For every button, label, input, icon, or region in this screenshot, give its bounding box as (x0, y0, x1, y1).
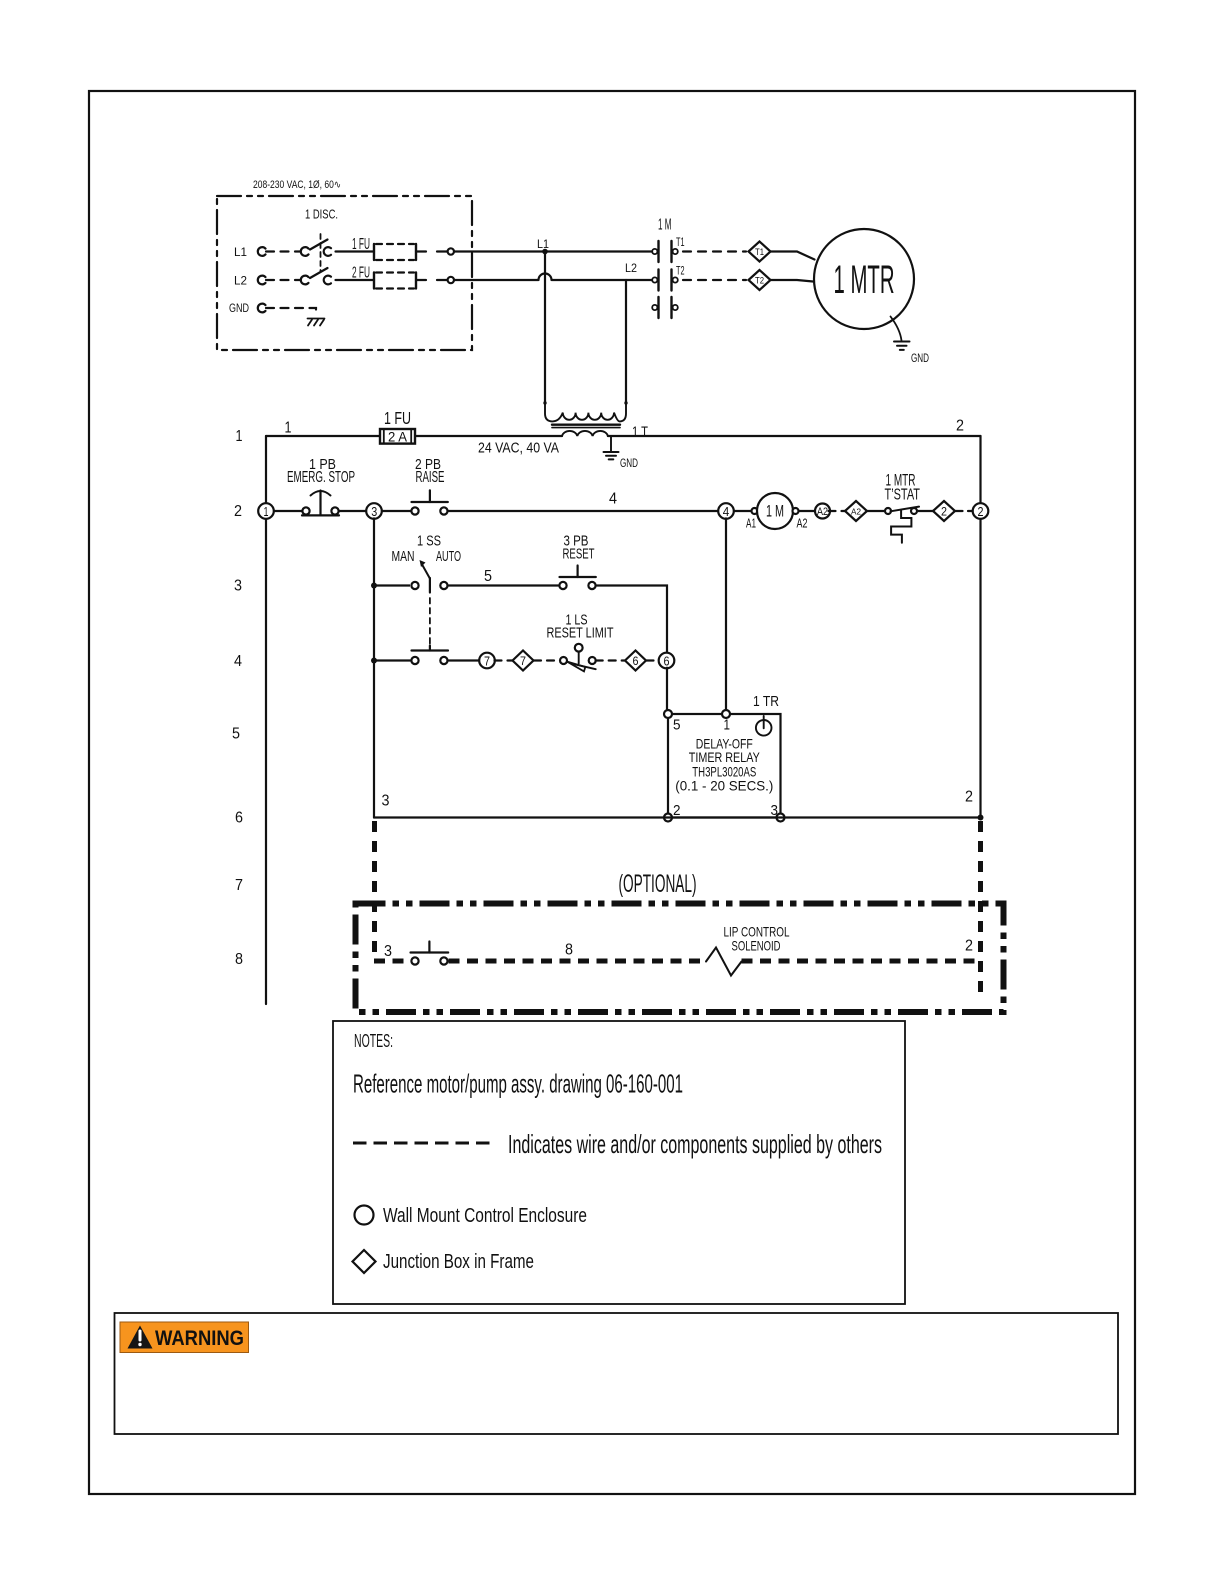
transformer lead dots (543, 401, 546, 404)
node circle 2 (973, 503, 989, 519)
transformer core (552, 424, 620, 426)
svg-text:6: 6 (664, 653, 670, 668)
svg-text:L1: L1 (537, 237, 549, 251)
svg-text:3: 3 (234, 578, 242, 595)
svg-text:Indicates wire and/or componen: Indicates wire and/or components supplie… (508, 1129, 882, 1159)
junction diamond 6 (625, 651, 646, 671)
selector contact (rung 4) (411, 646, 448, 665)
rung 8 dashed wire right (742, 959, 981, 964)
svg-text:(OPTIONAL): (OPTIONAL) (619, 870, 697, 898)
timer terminal 3 (777, 814, 785, 822)
wire from fuse 1FU (416, 250, 447, 252)
wire dash limit switch to diamond 6 (596, 659, 625, 661)
warning box (115, 1313, 1119, 1434)
svg-text:1 T: 1 T (632, 424, 648, 441)
legend dashed line sample (353, 1142, 490, 1145)
wire GND dashed (266, 308, 316, 316)
fuse 1FU 2A on rung 1 (380, 429, 415, 445)
optional enclosure box (phantom, heavy) (356, 904, 1004, 1013)
svg-text:24 VAC, 40 VA: 24 VAC, 40 VA (478, 440, 559, 457)
wire L1 drop to transformer (544, 252, 546, 404)
disconnect blade L1 (310, 240, 328, 250)
warning label plate (120, 1322, 249, 1353)
timer relay 1TR box (668, 714, 781, 818)
wire L1 dashed (266, 250, 300, 252)
contactor 1M pole 3 (unused) (652, 297, 678, 318)
svg-text:NOTES:: NOTES: (354, 1031, 393, 1051)
svg-text:A1: A1 (746, 516, 756, 531)
svg-text:A2: A2 (851, 507, 861, 517)
junction diamond A2 (845, 501, 867, 521)
junction diamond T2 (749, 270, 771, 290)
rung 4 wire (374, 659, 480, 661)
wire dash diamond to limit switch (534, 659, 560, 661)
svg-text:RESET: RESET (563, 546, 595, 563)
svg-text:L2: L2 (625, 261, 637, 275)
disconnect blade L2 (310, 268, 328, 278)
vertical wire node3 down (373, 518, 375, 817)
svg-text:1 MTR: 1 MTR (834, 258, 895, 302)
node circle 6 (659, 653, 675, 669)
svg-text:T2: T2 (755, 275, 764, 285)
svg-text:4: 4 (609, 491, 617, 508)
wire into fuse 1FU (336, 250, 375, 252)
wire from fuse 2FU (416, 279, 447, 281)
terminal L1 (258, 247, 266, 256)
rung 8 dashed wire middle (449, 959, 703, 964)
node circle 1 (258, 503, 274, 519)
svg-text:1: 1 (724, 717, 731, 734)
lip control solenoid zigzag (706, 948, 742, 976)
svg-text:8: 8 (565, 942, 573, 959)
disconnect pole L1 exit terminal (324, 247, 331, 256)
selector mechanical link (429, 598, 431, 645)
disconnect pole L2 exit terminal (324, 276, 331, 285)
svg-text:5: 5 (673, 717, 681, 734)
junction diamond T1 (749, 242, 771, 262)
svg-text:1 M: 1 M (658, 217, 672, 234)
junction diamond 2 (rung 2) (933, 501, 955, 521)
junction dot rung4 (371, 658, 377, 664)
svg-text:2: 2 (941, 504, 947, 518)
svg-text:1: 1 (264, 504, 269, 519)
terminal GND (258, 304, 266, 313)
earth ground symbol (motor) (894, 342, 910, 350)
svg-text:GND: GND (911, 351, 929, 365)
svg-text:2 A: 2 A (388, 429, 408, 445)
svg-text:1 SS: 1 SS (417, 533, 441, 550)
svg-text:3: 3 (382, 793, 390, 810)
rung 6 wire (374, 816, 981, 818)
limit switch 1LS RESET LIMIT (560, 644, 596, 672)
timer clock symbol (756, 716, 772, 736)
coil 1M (752, 493, 799, 529)
vertical wire node6 to timer (666, 668, 668, 710)
disconnect pole L2 terminal (301, 276, 309, 285)
junction dot rung3 (371, 583, 377, 589)
secondary ground tap (610, 436, 612, 451)
svg-text:2: 2 (234, 503, 242, 520)
svg-text:(0.1 - 20 SECS.): (0.1 - 20 SECS.) (675, 778, 773, 794)
wire dash diamond 6 to node 6 (647, 659, 660, 661)
wire L1 to contactor (454, 250, 652, 252)
svg-text:RAISE: RAISE (416, 469, 445, 486)
rung 1 wire (266, 435, 981, 437)
svg-text:1: 1 (236, 428, 243, 445)
legend circle symbol (355, 1206, 374, 1225)
node L1 (542, 249, 548, 255)
dashed riser left (by others) (372, 821, 377, 958)
svg-text:3: 3 (371, 504, 377, 519)
supply enclosure (by others, phantom box) (217, 196, 472, 350)
svg-text:5: 5 (484, 568, 492, 585)
right rail (979, 436, 981, 818)
transformer 1T secondary (562, 431, 608, 436)
wire dash coil to diamond (829, 510, 846, 512)
svg-text:RESET LIMIT: RESET LIMIT (547, 625, 614, 642)
notes box (333, 1021, 905, 1304)
motor 1MTR (814, 229, 914, 329)
earth ground symbol (enclosure) (308, 319, 325, 326)
svg-text:SOLENOID: SOLENOID (732, 938, 781, 954)
svg-text:WARNING: WARNING (155, 1327, 244, 1350)
enclosure boundary terminal L1 (448, 248, 454, 254)
junction dot rail rung6 (978, 815, 984, 821)
transformer 1T primary (545, 403, 626, 421)
wire dash 7 to diamond (495, 659, 513, 661)
warning triangle icon (128, 1326, 153, 1349)
thermostat 1MTR T'STAT (NC) (884, 505, 919, 543)
svg-text:T1: T1 (755, 247, 764, 257)
svg-text:6: 6 (633, 654, 639, 668)
svg-text:L1: L1 (234, 245, 247, 259)
fuse 2FU (dashed body) (374, 273, 416, 289)
svg-text:2: 2 (978, 504, 984, 519)
wire T2 dashed to junction box (683, 279, 746, 281)
svg-text:4: 4 (234, 653, 242, 670)
svg-text:Reference motor/pump assy. dra: Reference motor/pump assy. drawing 06-16… (353, 1069, 683, 1099)
wire into fuse 2FU (336, 279, 375, 281)
svg-text:1 FU: 1 FU (384, 408, 411, 428)
pushbutton 1PB EMERG. STOP (NC) (302, 491, 339, 518)
contactor 1M pole T2 (652, 270, 678, 291)
svg-text:EMERG. STOP: EMERG. STOP (287, 469, 355, 486)
node circle A2 (815, 504, 830, 519)
timer terminal 2 (664, 814, 672, 822)
svg-text:208-230 VAC, 1Ø, 60∿: 208-230 VAC, 1Ø, 60∿ (253, 179, 341, 191)
svg-text:3: 3 (384, 943, 392, 960)
svg-text:Junction Box in Frame: Junction Box in Frame (383, 1251, 534, 1273)
wire T1 dashed to junction box (683, 250, 746, 252)
svg-text:A2: A2 (817, 506, 828, 518)
svg-text:GND: GND (229, 301, 249, 315)
junction diamond 7 (513, 651, 534, 671)
svg-text:AUTO: AUTO (436, 548, 461, 565)
svg-text:7: 7 (520, 654, 526, 668)
contactor 1M pole T1 (652, 241, 678, 262)
motor ground wire (891, 317, 902, 341)
svg-text:A2: A2 (797, 516, 808, 531)
svg-text:T’STAT: T’STAT (885, 487, 921, 504)
node circle 7 (479, 653, 495, 669)
left rail (265, 436, 267, 1004)
wire L2 dashed (266, 279, 300, 281)
svg-text:MAN: MAN (392, 548, 415, 565)
wire L2 to contactor (hop over L1 drop) (454, 274, 652, 281)
vertical wire node4 down to timer (725, 518, 727, 710)
svg-text:5: 5 (232, 726, 240, 743)
svg-text:2: 2 (965, 938, 973, 955)
pushbutton lip control (NO) (411, 942, 449, 965)
selector switch 1SS (410, 560, 448, 593)
wire T2 to motor (771, 280, 814, 282)
svg-text:L2: L2 (234, 274, 247, 288)
timer terminal 1 (722, 710, 730, 718)
wire L2 drop to transformer (625, 280, 627, 403)
dashed riser right (by others) (978, 821, 983, 1001)
svg-text:8: 8 (235, 951, 243, 968)
legend diamond symbol (353, 1250, 376, 1273)
pushbutton 2PB RAISE (NO) (411, 490, 448, 517)
node circle 4 (718, 503, 734, 519)
fuse 1FU (dashed body) (374, 244, 416, 260)
rung 3 wire (374, 586, 667, 654)
disconnect mechanical link (320, 234, 322, 272)
svg-text:Wall Mount Control Enclosure: Wall Mount Control Enclosure (383, 1205, 587, 1227)
wire T1 to motor (771, 252, 815, 260)
page border frame (89, 91, 1135, 1494)
rung 8 dashed wire left (374, 959, 406, 964)
timer terminal 5 (664, 710, 672, 718)
svg-text:GND: GND (620, 456, 638, 470)
disconnect pole L1 terminal (301, 247, 309, 256)
svg-text:1 M: 1 M (766, 502, 784, 521)
node circle 3 (366, 503, 382, 519)
svg-text:T1: T1 (676, 237, 685, 249)
terminal L2 (258, 276, 266, 285)
svg-text:2: 2 (956, 418, 964, 435)
svg-text:T2: T2 (676, 266, 685, 278)
svg-text:1 TR: 1 TR (753, 693, 779, 710)
svg-text:7: 7 (484, 653, 490, 668)
svg-text:1 DISC.: 1 DISC. (305, 207, 338, 222)
pushbutton 3PB RESET (NO) (559, 566, 596, 592)
svg-text:7: 7 (235, 877, 243, 894)
svg-text:4: 4 (723, 504, 730, 519)
enclosure boundary terminal L2 (448, 277, 454, 283)
earth ground symbol (transformer) (604, 452, 619, 459)
svg-text:2: 2 (965, 789, 973, 806)
rung 2 wire (266, 510, 822, 512)
svg-text:6: 6 (235, 810, 243, 827)
svg-text:1: 1 (285, 420, 292, 437)
